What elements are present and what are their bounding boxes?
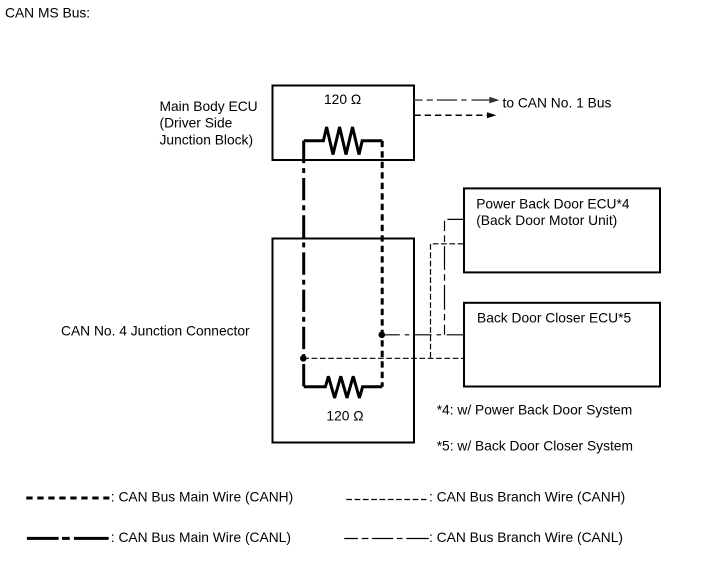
resistor R1 120Ω (top, in Main Body ECU) [304, 127, 383, 155]
svg-text:: CAN Bus Branch Wire (CANH): : CAN Bus Branch Wire (CANH) [429, 489, 625, 504]
svg-text:: CAN Bus Main Wire (CANL): : CAN Bus Main Wire (CANL) [111, 530, 291, 545]
svg-text:to CAN No. 1 Bus: to CAN No. 1 Bus [503, 96, 612, 111]
svg-text:120 Ω: 120 Ω [324, 92, 361, 107]
svg-text:Junction Block): Junction Block) [160, 132, 254, 147]
wire: CANH branch horizontal to Back Door Closer ECU [303, 357, 463, 359]
resistor R2 120Ω (bottom, in junction connector) [304, 376, 383, 398]
svg-text:Back Door Closer ECU*5: Back Door Closer ECU*5 [477, 311, 631, 326]
svg-text:*4: w/ Power Back Door System: *4: w/ Power Back Door System [437, 402, 633, 417]
legend sample: CAN bus main wire CANL (thick dash-dot) [27, 537, 109, 540]
svg-text:120 Ω: 120 Ω [326, 408, 363, 423]
legend sample: CAN bus main wire CANH (thick dashed) [26, 497, 109, 500]
wire: CANL branch vertical riser with stub into Power Back Door ECU [445, 219, 464, 334]
CAN No. 4 Junction Connector box [273, 239, 415, 443]
svg-text:(Back Door Motor Unit): (Back Door Motor Unit) [476, 213, 617, 228]
label: Main Body ECU (Driver Side Junction Block) [160, 99, 258, 147]
wire: CAN bus main CANL (thick dash-dot) left vertical [302, 141, 305, 387]
svg-text:Main Body ECU: Main Body ECU [160, 99, 258, 114]
svg-text:(Driver Side: (Driver Side [160, 116, 233, 131]
wire: CANL branch horizontal to Back Door Closer ECU [383, 334, 463, 336]
node dot on CANH main [379, 332, 386, 339]
arrow: CANH main to CAN No. 1 Bus (black dashed) [414, 112, 496, 118]
svg-text:CAN MS Bus:: CAN MS Bus: [5, 6, 90, 21]
svg-text:: CAN Bus Branch Wire (CANL): : CAN Bus Branch Wire (CANL) [429, 530, 623, 545]
svg-text:Power Back Door ECU*4: Power Back Door ECU*4 [476, 196, 630, 211]
legend sample: CAN bus branch wire CANL (thin dash-dot) [344, 538, 429, 540]
node dot on CANL main [300, 355, 307, 362]
legend sample: CAN bus branch wire CANH (thin dashed) [346, 499, 426, 501]
Power Back Door ECU box [464, 188, 660, 272]
Main Body ECU box [273, 86, 415, 161]
svg-text:: CAN Bus Main Wire (CANH): : CAN Bus Main Wire (CANH) [111, 490, 293, 505]
svg-text:CAN No. 4 Junction Connector: CAN No. 4 Junction Connector [61, 324, 250, 339]
wire: CAN bus main CANH (thick dashed) right vertical [381, 141, 384, 387]
wire: CANH branch vertical riser [431, 244, 464, 358]
arrow: CANL main to CAN No. 1 Bus (gray dash-dot) [414, 97, 499, 104]
Back Door Closer ECU box [464, 303, 660, 387]
svg-text:*5: w/ Back Door Closer System: *5: w/ Back Door Closer System [437, 438, 633, 453]
label: Power Back Door ECU*4 (Back Door Motor Unit) [476, 196, 630, 228]
